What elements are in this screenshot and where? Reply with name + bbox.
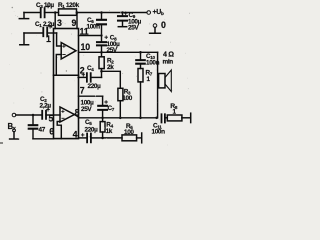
wire rail R1 to +Ub terminal: [77, 12, 147, 14]
node junction pin9 drop: [76, 11, 79, 14]
wire pin 8 output: [79, 117, 157, 119]
wire C1 left lead: [24, 32, 43, 34]
resistor R3: [118, 88, 123, 100]
wire C4 left lead: [79, 76, 87, 78]
ground bar below C9: [118, 26, 126, 28]
IC internal divider: [54, 74, 79, 76]
capacitor C2: [42, 111, 46, 119]
wire inverting input step U1B: [57, 122, 61, 139]
svg-text:25V: 25V: [128, 25, 139, 32]
node junction R3 bottom: [119, 117, 122, 120]
wire R4 bottom to R5: [103, 137, 122, 139]
svg-text:100n: 100n: [152, 129, 166, 136]
node junction C7 bottom: [101, 117, 104, 120]
resistor R8: [167, 115, 182, 121]
node junction pin2: [77, 76, 79, 78]
svg-text:10: 10: [81, 42, 91, 52]
svg-text:2,2µ: 2,2µ: [40, 103, 52, 110]
wire inverting input step U1A: [56, 55, 61, 76]
resistor R1: [59, 9, 77, 15]
node junction C9: [121, 11, 124, 14]
resistor R5: [122, 135, 137, 141]
svg-text:100n: 100n: [87, 24, 101, 31]
capacitor C4: [87, 73, 91, 82]
capacitor C3: [41, 8, 45, 17]
ground below 0 terminal: [150, 27, 161, 33]
capacitor C7: [102, 96, 104, 105]
wire pin1 internal step to + input: [57, 33, 62, 46]
svg-text:C4: C4: [87, 65, 94, 72]
svg-text:100: 100: [122, 95, 132, 102]
wire C5 to R4 bottom: [91, 137, 103, 139]
node junction pin3 drop: [54, 11, 57, 14]
resistor R2: [101, 52, 103, 57]
svg-text:min: min: [163, 59, 174, 66]
svg-text:25V: 25V: [107, 47, 118, 54]
svg-text:47: 47: [39, 127, 46, 134]
node junction 47 cap: [32, 114, 35, 117]
wire pin 11 stub: [79, 35, 102, 37]
svg-text:100: 100: [124, 129, 134, 136]
wire top rail left segment: [24, 12, 41, 14]
ground stub for C1: [20, 33, 29, 45]
noise speck: [12, 7, 14, 9]
capacitor C8: [101, 36, 103, 42]
svg-text:R1 120k: R1 120k: [58, 2, 80, 9]
node junction R7 bottom: [139, 117, 142, 120]
wire R8 to ground bar: [182, 117, 190, 119]
node junction R2 bottom: [100, 70, 103, 73]
svg-text:100n: 100n: [146, 60, 160, 67]
node junction R4 bottom: [101, 137, 104, 140]
op-amp U1A: [61, 43, 76, 60]
svg-text:C5: C5: [85, 119, 92, 126]
svg-text:2k: 2k: [107, 64, 114, 71]
capacitor C1: [43, 28, 47, 37]
capacitor C5: [87, 134, 91, 143]
svg-text:2: 2: [80, 66, 85, 76]
wire 47 cap to IC bottom corner: [33, 138, 54, 140]
terminal ground input: [13, 129, 16, 132]
wire pin 3 drop: [54, 13, 56, 29]
wire speaker drop: [157, 52, 159, 118]
svg-text:6: 6: [49, 127, 54, 137]
wire C4 right lead: [91, 76, 102, 78]
op-amp U1B: [60, 107, 74, 122]
resistor R7: [138, 69, 143, 82]
wire pin 7 branch to C7: [79, 95, 103, 97]
node junction C10: [139, 51, 142, 54]
svg-text:7: 7: [80, 86, 85, 96]
capacitor 47: [32, 115, 34, 125]
terminal input Bx: [12, 113, 16, 117]
node junction C6: [100, 11, 103, 14]
svg-text:C1 2,2µ: C1 2,2µ: [35, 21, 55, 28]
node junction pin11/C6/C8: [100, 34, 102, 36]
wire C1 to pin 1: [47, 32, 56, 34]
resistor R4: [102, 118, 104, 122]
svg-text:4 Ω: 4 Ω: [163, 49, 174, 58]
capacitor C10: [140, 52, 142, 59]
wire C2 to pin 5 / U1B + input: [46, 114, 60, 116]
svg-text:8: 8: [75, 108, 80, 118]
node junction C8 on output wire: [100, 51, 103, 54]
svg-text:25V: 25V: [81, 106, 92, 113]
ground bar right of R8: [190, 113, 192, 122]
scan speckle: [64, 22, 67, 25]
noise speck: [66, 70, 67, 71]
svg-text:1k: 1k: [106, 128, 113, 135]
node junction speaker line: [155, 117, 158, 120]
wire U1B output to pin 8: [74, 115, 78, 118]
speaker LS: [159, 74, 165, 88]
svg-text:3: 3: [57, 18, 62, 28]
svg-text:0: 0: [161, 20, 166, 30]
svg-text:11: 11: [80, 27, 89, 37]
wire R5 to ground bar: [137, 137, 141, 139]
wire pin 10 output: [79, 51, 158, 53]
svg-text:4: 4: [73, 129, 78, 139]
wire pin 9 drop: [76, 13, 78, 29]
wire rail C3 to R1: [45, 12, 59, 14]
capacitor C9: [122, 13, 124, 16]
svg-text:220µ: 220µ: [88, 83, 102, 90]
svg-text:+Ub: +Ub: [153, 9, 164, 16]
wire R2 to R3 bend: [102, 71, 121, 88]
wire input to C2: [16, 114, 42, 116]
svg-text:5: 5: [49, 114, 54, 124]
wire C11 to R8: [165, 117, 167, 119]
wire C4 branch vertical: [101, 71, 103, 77]
IC outline U1: [54, 29, 79, 139]
svg-text:C7: C7: [108, 105, 115, 112]
svg-text:C3 10µ: C3 10µ: [36, 2, 54, 9]
capacitor C11: [162, 114, 165, 122]
terminal +Ub: [147, 11, 151, 15]
scan mark left edge: [0, 142, 3, 144]
capacitor C6: [101, 13, 103, 20]
ground bar right of R5: [141, 133, 143, 143]
svg-text:1: 1: [46, 34, 51, 44]
ground stub top-left: [19, 13, 28, 19]
terminal 0: [153, 24, 157, 28]
svg-text:9: 9: [72, 18, 77, 28]
wire pin 4 to C5: [79, 137, 87, 139]
